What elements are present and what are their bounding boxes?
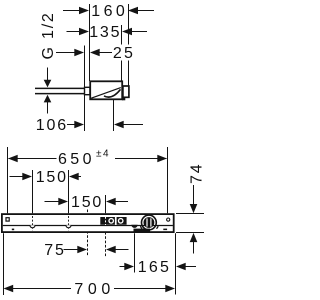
dimension 135 shafts xyxy=(67,31,80,33)
arrow 106 right xyxy=(114,121,124,129)
extension line C (135 right tick) xyxy=(121,25,123,45)
arrow 135 left xyxy=(79,28,89,36)
svg-text:150: 150 xyxy=(36,169,68,186)
extension 650 left xyxy=(7,147,9,213)
arrow 150#2 left xyxy=(58,198,68,206)
small mark lower left xyxy=(12,229,14,231)
svg-text:135: 135 xyxy=(89,24,121,41)
arrow 160 right xyxy=(128,7,138,15)
dim 165 shafts xyxy=(120,266,128,268)
arrow 650 left xyxy=(8,155,18,163)
arrow 106 left xyxy=(74,121,84,129)
extension line A (front of stub, ticks for 25 and 106) xyxy=(84,46,86,132)
arrowheads bottom section xyxy=(4,155,198,293)
arrow pipe up xyxy=(44,95,52,103)
stub (pipe end at bracket) xyxy=(85,87,91,94)
outlet cup 2 xyxy=(66,225,71,228)
thermostat dial core xyxy=(144,217,155,228)
dim 150 #2 shafts xyxy=(45,201,60,203)
svg-text:106: 106 xyxy=(36,117,68,134)
dim 75 shafts xyxy=(64,249,80,251)
small ring right xyxy=(167,218,170,221)
step at bracket bottom right xyxy=(122,98,125,100)
extension line from outlet down to 106 xyxy=(113,97,115,131)
arrow pipe down xyxy=(44,80,52,88)
dimension 106 shafts xyxy=(67,124,75,126)
handle pill (white zone) xyxy=(127,217,140,225)
arrow 150#2 right xyxy=(106,198,116,206)
arrow 160 left xyxy=(79,7,89,15)
extension line D (wall face, 160 right tick) xyxy=(128,4,130,45)
svg-text:150: 150 xyxy=(71,194,103,211)
arrow 700 right xyxy=(165,285,175,293)
dim 650 shafts xyxy=(9,158,57,160)
bar outer rectangle xyxy=(2,214,174,232)
extension 650 right xyxy=(167,147,169,213)
arrow 165 right xyxy=(176,263,186,271)
arrow 25 left xyxy=(74,49,84,57)
arrow 150#1 right xyxy=(69,173,79,181)
arrow 150#1 left xyxy=(22,173,32,181)
centerline white dashes over dark band xyxy=(105,217,107,225)
dial side curls xyxy=(141,226,143,229)
outlet arc inside bracket xyxy=(104,89,121,97)
74 dim shafts xyxy=(193,185,195,205)
cup centerline dashes xyxy=(33,216,69,231)
tick 165 left xyxy=(134,233,136,272)
arrow 75 left xyxy=(77,246,87,254)
arrow 74 down xyxy=(190,204,198,213)
svg-text:700: 700 xyxy=(74,281,115,298)
arrow 74 up xyxy=(190,233,198,242)
svg-text:±4: ±4 xyxy=(96,149,110,160)
svg-text:25: 25 xyxy=(113,45,135,62)
extension line B (bracket front face, left tick of 160 and 135) xyxy=(89,4,91,81)
dial lower dark merge xyxy=(134,229,151,232)
thermostat dial outer ring xyxy=(142,215,157,230)
arrow 700 left xyxy=(4,285,14,293)
svg-text:165: 165 xyxy=(138,259,171,276)
arrowheads top section xyxy=(44,7,138,129)
dimension 160 shafts xyxy=(63,10,80,12)
arrow 75 right xyxy=(106,246,116,254)
diagonal inside bracket xyxy=(91,88,121,99)
dimension 25 shafts xyxy=(56,52,76,54)
bar middle line xyxy=(3,225,173,227)
tick 700 left xyxy=(3,233,5,295)
dashed centerline x87.5 xyxy=(87,210,89,257)
small dash lower right xyxy=(163,229,167,231)
bracket body rectangle xyxy=(90,81,122,99)
arrow 650 right xyxy=(157,155,167,163)
svg-text:650: 650 xyxy=(58,151,95,168)
svg-text:74: 74 xyxy=(189,163,205,184)
pipe diameter dim shafts xyxy=(47,68,49,81)
select buttons dark band xyxy=(100,217,126,225)
74 extension lines xyxy=(176,213,204,215)
hose outlet cup under mid line xyxy=(131,225,137,228)
dim 700 shafts xyxy=(12,288,71,290)
tick 165/700 right xyxy=(175,233,177,294)
outlet cup 1 xyxy=(30,225,35,228)
extension ticks 150 xyxy=(32,170,34,213)
pipe (two horizontal lines) xyxy=(35,88,85,93)
dial grip slots xyxy=(146,218,147,227)
arrow 135 right xyxy=(122,28,132,36)
arrow 165 left xyxy=(124,263,134,271)
dim 150 #1 shafts xyxy=(10,176,24,178)
arrow 25 right xyxy=(90,49,100,57)
svg-text:160: 160 xyxy=(91,3,128,20)
svg-text:G 1/2: G 1/2 xyxy=(40,11,57,59)
svg-text:75: 75 xyxy=(44,242,65,259)
button ring 2 xyxy=(118,218,124,224)
button ring 1 xyxy=(108,218,114,224)
white gap between buttons xyxy=(115,217,117,225)
wall escutcheon (right attachment) xyxy=(123,86,129,97)
small square left end xyxy=(6,218,9,221)
dashed centerline x105.5 below bar xyxy=(105,232,107,257)
